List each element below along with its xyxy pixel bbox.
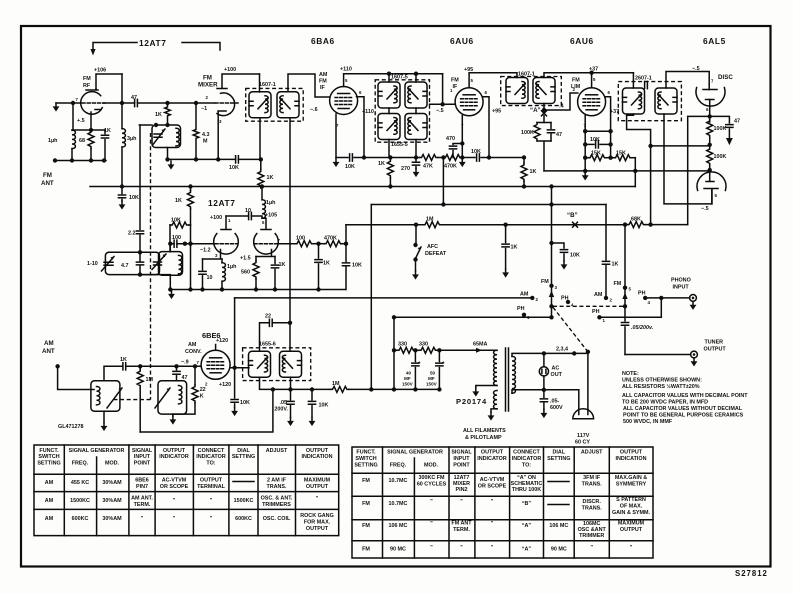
svg-text:THRU 100K: THRU 100K xyxy=(512,487,541,493)
capacitor 47 xyxy=(710,116,730,123)
svg-text:−1.2: −1.2 xyxy=(200,248,211,254)
wire plate xyxy=(230,367,249,369)
svg-text:FM: FM xyxy=(362,478,370,484)
capacitor 10K afc xyxy=(552,243,565,248)
svg-text:1K: 1K xyxy=(323,261,330,267)
wire filter bottom rail xyxy=(371,388,439,390)
svg-text:1M: 1M xyxy=(426,217,434,223)
svg-text:TRANS.: TRANS. xyxy=(582,506,603,512)
svg-text:SIGNAL GENERATOR: SIGNAL GENERATOR xyxy=(69,448,125,454)
capacitor 1K xyxy=(104,130,106,134)
svg-text:NOTE:: NOTE: xyxy=(622,371,639,377)
tube V5b 6AL5 lower diode xyxy=(697,172,726,191)
switch contact AM 2 xyxy=(530,296,534,300)
svg-text:FREQ.: FREQ. xyxy=(390,463,407,469)
svg-text:10.7MC: 10.7MC xyxy=(389,478,408,484)
svg-text:MF: MF xyxy=(428,376,435,381)
svg-text:1K: 1K xyxy=(104,128,111,134)
svg-text:SIGNAL: SIGNAL xyxy=(451,450,472,456)
wire tank top to grid row xyxy=(169,244,171,252)
wire to phono jack xyxy=(645,297,689,299)
wire B bus y224.7 xyxy=(346,224,625,226)
capacitor 470 xyxy=(453,144,462,145)
svg-text:AM: AM xyxy=(594,292,603,298)
svg-text:INDICATION: INDICATION xyxy=(301,454,332,460)
svg-text:OSC &ANT: OSC &ANT xyxy=(578,527,607,533)
wire grid to ground xyxy=(56,102,81,104)
wire secondary top to 6BA6 grid xyxy=(288,74,330,97)
resistor 22K xyxy=(194,366,196,384)
svg-text:ADJUST: ADJUST xyxy=(266,448,288,454)
svg-text:15K: 15K xyxy=(591,151,601,157)
svg-text:47K: 47K xyxy=(423,164,433,170)
resistor 1K xyxy=(165,103,171,125)
ground arrow xyxy=(726,138,733,145)
svg-text:OF MAX.: OF MAX. xyxy=(620,504,643,510)
wire grid input xyxy=(430,103,456,105)
wire ground bus xyxy=(170,289,345,291)
svg-text:12AT7: 12AT7 xyxy=(139,38,167,48)
wire phono ground side xyxy=(599,298,661,317)
svg-text:6BA6: 6BA6 xyxy=(311,36,335,46)
svg-text:PIN7: PIN7 xyxy=(136,484,148,490)
svg-text:“A”: “A” xyxy=(522,547,532,553)
ground osc xyxy=(172,414,174,416)
svg-text:500 WVDC, IN MMF: 500 WVDC, IN MMF xyxy=(623,419,673,425)
svg-text:”: ” xyxy=(173,516,176,522)
svg-text:+120: +120 xyxy=(219,382,231,388)
wire coil top xyxy=(104,366,122,381)
svg-text:FM: FM xyxy=(362,547,370,553)
svg-text:TRANS.: TRANS. xyxy=(582,482,603,488)
IF tank bottom-right xyxy=(405,114,427,140)
IF tank secondary xyxy=(533,78,555,104)
IF tank secondary xyxy=(280,351,302,377)
svg-text:DISC: DISC xyxy=(718,74,733,81)
svg-text:+100: +100 xyxy=(224,67,236,73)
svg-text:1µh: 1µh xyxy=(227,264,236,270)
wire reference y145.9 xyxy=(651,145,710,147)
notes text xyxy=(622,371,748,425)
svg-text:TERM.: TERM. xyxy=(453,527,470,533)
resistor 330 second xyxy=(415,349,419,351)
wire secondary bottom to node A xyxy=(543,104,545,111)
svg-text:10K: 10K xyxy=(129,195,139,201)
wire plate rail +110 xyxy=(344,74,443,87)
svg-text:47: 47 xyxy=(131,95,137,101)
wire cathode xyxy=(335,114,337,158)
svg-text:+: + xyxy=(442,360,445,365)
svg-text:FM: FM xyxy=(83,76,91,82)
wire corner to 10K chain xyxy=(345,225,347,262)
svg-text:100K: 100K xyxy=(714,154,727,160)
svg-text:47: 47 xyxy=(734,119,740,125)
capacitor 47 xyxy=(550,123,552,129)
svg-text:1500KC: 1500KC xyxy=(234,498,254,504)
wire primary bottom reference xyxy=(627,114,651,225)
svg-text:30%AM: 30%AM xyxy=(102,480,122,486)
ground xyxy=(413,169,420,178)
svg-text:CONV.: CONV. xyxy=(185,349,202,355)
svg-text:+1.5: +1.5 xyxy=(240,256,251,262)
svg-text:−.4: −.4 xyxy=(556,104,564,110)
wire antenna bus xyxy=(55,149,106,161)
svg-text:1-10: 1-10 xyxy=(87,261,98,267)
IF tank primary xyxy=(506,78,528,104)
svg-text:FM: FM xyxy=(614,281,622,287)
svg-text:”: ” xyxy=(590,545,593,551)
resistor 470K xyxy=(324,241,342,247)
wire AVC bus y186.5 xyxy=(90,186,635,188)
svg-text:3FM IF: 3FM IF xyxy=(583,475,601,481)
wire diode cathode down xyxy=(709,100,711,117)
IF tank secondary xyxy=(655,88,677,114)
svg-text:GAIN & SYMM.: GAIN & SYMM. xyxy=(612,510,651,516)
svg-text:FM: FM xyxy=(43,172,52,179)
wire trimmer feed x140 xyxy=(139,125,141,252)
wire bus y204.5 xyxy=(371,204,606,206)
resistor 1M xyxy=(423,222,441,228)
wire cathode xyxy=(461,116,463,158)
svg-text:100K: 100K xyxy=(521,130,534,136)
svg-text:ALL CAPACITOR VALUES WITH DECI: ALL CAPACITOR VALUES WITH DECIMAL POINT xyxy=(622,393,748,399)
svg-text:10K: 10K xyxy=(319,403,329,409)
coil 1uh plate choke xyxy=(261,187,263,200)
svg-text:DISCR.: DISCR. xyxy=(583,499,602,505)
wire primary top xyxy=(632,73,634,88)
svg-text:600KC: 600KC xyxy=(72,516,89,522)
wire secondary bottom xyxy=(512,390,579,393)
svg-text:MAXIMUM: MAXIMUM xyxy=(618,521,645,527)
svg-text:OUTPUT: OUTPUT xyxy=(200,478,223,484)
wire x606 1K cap to AM xyxy=(605,205,607,260)
svg-text:−.5: −.5 xyxy=(436,108,444,114)
svg-text:”: ” xyxy=(210,516,213,522)
svg-text:60 CYCLES: 60 CYCLES xyxy=(417,482,447,488)
svg-text:+: + xyxy=(418,360,421,365)
svg-text:1M: 1M xyxy=(146,377,154,383)
svg-text:PIN2: PIN2 xyxy=(456,487,468,493)
capacitor .05 200V xyxy=(290,389,292,399)
node xyxy=(120,101,124,105)
svg-text:POINT: POINT xyxy=(134,461,151,467)
svg-text:MIXER: MIXER xyxy=(453,481,470,487)
svg-text:FM: FM xyxy=(362,501,370,507)
svg-text:ALL CAPACITOR VALUES WITHOUT D: ALL CAPACITOR VALUES WITHOUT DECIMAL xyxy=(623,406,743,412)
svg-text:”: ” xyxy=(460,499,463,505)
capacitor 47 xyxy=(135,99,138,106)
IF tank secondary xyxy=(277,92,299,118)
svg-text:”: ” xyxy=(460,545,463,551)
svg-text:15K: 15K xyxy=(616,151,626,157)
svg-text:1K: 1K xyxy=(279,262,286,268)
svg-text:−.5: −.5 xyxy=(701,206,709,212)
svg-text:150V: 150V xyxy=(426,382,438,387)
ground xyxy=(168,161,175,170)
trimmer 1-10 xyxy=(105,252,159,274)
wire secondary bottom xyxy=(664,114,712,204)
resistor 1M xyxy=(139,366,141,369)
svg-text:10K: 10K xyxy=(352,263,362,269)
svg-text:“B”: “B” xyxy=(522,501,532,507)
switch contact PH 4 right xyxy=(643,296,647,300)
svg-text:106MC: 106MC xyxy=(583,521,600,527)
tube V2 6BA6 xyxy=(330,87,358,115)
wire grid line y103 xyxy=(103,102,215,104)
svg-text:”: ” xyxy=(491,499,494,505)
svg-text:TERMINAL: TERMINAL xyxy=(197,484,226,490)
svg-text:65MA: 65MA xyxy=(473,342,487,348)
coil AM antenna GL471278 xyxy=(91,381,120,411)
wire to 68K xyxy=(688,116,710,224)
wire primary top xyxy=(259,74,261,92)
svg-text:FM: FM xyxy=(203,75,212,82)
svg-text:”: ” xyxy=(141,516,144,522)
resistor 1K limiter xyxy=(523,158,525,163)
wire primary bottom xyxy=(259,118,261,160)
svg-text:MOD.: MOD. xyxy=(424,463,439,469)
svg-text:S PATTERN: S PATTERN xyxy=(616,497,646,503)
switch contact PH 1 right xyxy=(597,315,601,319)
wire x551 switch feed xyxy=(551,187,553,318)
node AM ANT terminal xyxy=(55,364,59,368)
wire AF takeoff bus y170.9 xyxy=(544,170,710,172)
capacitor 47 xyxy=(176,366,178,370)
tube V5a 6AL5 upper diode xyxy=(696,88,725,107)
transformer P20174 primary xyxy=(494,350,497,385)
ground xyxy=(53,103,60,112)
resistor 100 output xyxy=(277,243,295,245)
svg-text:600KC: 600KC xyxy=(235,516,252,522)
capacitor 10 xyxy=(202,259,204,270)
svg-text:−.6: −.6 xyxy=(310,107,318,113)
transformer secondary xyxy=(512,356,515,393)
svg-text:4.7: 4.7 xyxy=(121,263,129,269)
connector tuner output xyxy=(691,351,698,358)
capacitor 10K screen xyxy=(477,154,480,161)
svg-text:470K: 470K xyxy=(444,164,457,170)
svg-text:OSC. COIL: OSC. COIL xyxy=(263,516,291,522)
switch contact PH 1 xyxy=(522,313,526,317)
svg-text:1µh: 1µh xyxy=(48,138,57,144)
resistor 1M xyxy=(331,386,349,392)
resistor 68K xyxy=(625,224,627,226)
wire tank feeds xyxy=(389,74,416,158)
wire secondary bottom long vertical xyxy=(289,118,291,351)
svg-text:ROCK GANG: ROCK GANG xyxy=(300,513,334,519)
wire screen pin6 xyxy=(357,97,365,158)
svg-text:117V: 117V xyxy=(577,433,590,439)
svg-text:INPUT: INPUT xyxy=(134,454,151,460)
svg-text:MF: MF xyxy=(404,376,411,381)
svg-text:SWITCH: SWITCH xyxy=(355,456,376,462)
svg-text:ANT: ANT xyxy=(42,348,55,355)
capacitor 100 xyxy=(170,243,174,245)
svg-text:1K: 1K xyxy=(155,112,162,118)
svg-text:AM: AM xyxy=(45,498,54,504)
ground xyxy=(502,269,509,278)
svg-text:SWITCH: SWITCH xyxy=(38,454,59,460)
IF tank primary xyxy=(249,351,271,377)
svg-text:200V.: 200V. xyxy=(274,407,288,413)
svg-text:AC-VTVM: AC-VTVM xyxy=(162,478,187,484)
svg-text:“A”: “A” xyxy=(522,523,532,529)
svg-text:300KC FM: 300KC FM xyxy=(418,475,445,481)
svg-text:INPUT: INPUT xyxy=(453,456,470,462)
svg-text:FREQ.: FREQ. xyxy=(72,461,89,467)
svg-text:SYMMETRY: SYMMETRY xyxy=(616,482,647,488)
IF tank top-right xyxy=(405,82,427,108)
tube V4 6AU6 FM LIM xyxy=(578,88,606,116)
wire grid leak y131 xyxy=(585,130,610,132)
node A xyxy=(542,111,547,116)
svg-text:10K: 10K xyxy=(171,218,181,224)
wire secondary top to disc pin7 xyxy=(666,72,709,89)
wire node A down xyxy=(543,116,545,123)
svg-text:AM: AM xyxy=(44,340,54,347)
svg-text:1500KC: 1500KC xyxy=(70,498,90,504)
svg-text:10K: 10K xyxy=(229,165,239,171)
svg-text:FM: FM xyxy=(541,279,549,285)
svg-text:OUT: OUT xyxy=(551,372,563,378)
svg-text:68K: 68K xyxy=(631,217,641,223)
svg-text:6AU6: 6AU6 xyxy=(450,36,474,46)
svg-text:P20174: P20174 xyxy=(456,397,487,406)
svg-text:FM: FM xyxy=(362,523,370,529)
capacitor 10K xyxy=(236,156,239,163)
svg-text:+100: +100 xyxy=(210,215,222,221)
svg-text:”: ” xyxy=(210,498,213,504)
switch contact PH 4 xyxy=(566,300,570,304)
svg-text:MOD.: MOD. xyxy=(105,461,120,467)
svg-text:270: 270 xyxy=(401,166,410,172)
svg-text:3µh: 3µh xyxy=(127,136,136,142)
wire tuner output xyxy=(625,354,691,356)
wire x371 vertical xyxy=(370,205,372,390)
tube V3 6AU6 FM IF xyxy=(455,88,483,116)
ground xyxy=(119,201,126,210)
svg-text:.05/200v.: .05/200v. xyxy=(631,325,654,331)
svg-text:−1: −1 xyxy=(201,106,207,112)
svg-text:+.5: +.5 xyxy=(77,118,85,124)
svg-text:6AL5: 6AL5 xyxy=(703,36,726,46)
svg-text:AM ANT.: AM ANT. xyxy=(131,496,153,502)
svg-text:”: ” xyxy=(173,498,176,504)
coil 3uh xyxy=(122,129,125,147)
svg-text:RF: RF xyxy=(83,83,91,89)
wire grid return x190 xyxy=(190,225,192,290)
wire screen pin6 xyxy=(483,97,490,158)
ground xyxy=(231,408,238,417)
svg-text:DIAL: DIAL xyxy=(553,450,566,456)
svg-text:AC-VTVM: AC-VTVM xyxy=(480,477,505,483)
svg-text:+37: +37 xyxy=(589,67,598,73)
svg-text:SETTING: SETTING xyxy=(547,456,570,462)
svg-text:60 CY: 60 CY xyxy=(575,440,590,446)
capacitor 10K xyxy=(234,368,236,398)
capacitor 1K xyxy=(505,225,507,243)
wire cathode V6b xyxy=(256,250,275,257)
resistor 560 xyxy=(255,257,257,261)
svg-text:12AT7: 12AT7 xyxy=(454,475,470,481)
svg-text:OUTPUT: OUTPUT xyxy=(620,450,643,456)
svg-text:OUTPUT: OUTPUT xyxy=(704,347,727,353)
connector AC OUT xyxy=(543,353,545,366)
svg-text:INDICATOR: INDICATOR xyxy=(477,456,507,462)
svg-text:”: ” xyxy=(491,521,494,527)
capacitor 1K xyxy=(123,363,126,370)
svg-text:“B”: “B” xyxy=(567,212,578,219)
svg-text:UNLESS OTHERWISE SHOWN:: UNLESS OTHERWISE SHOWN: xyxy=(622,378,702,384)
svg-text:”: ” xyxy=(491,545,494,551)
wire secondary top rail +37 xyxy=(544,73,633,78)
wire plate rail +95 xyxy=(469,73,517,88)
wire xyxy=(72,103,105,130)
svg-text:1655-6: 1655-6 xyxy=(259,342,276,348)
svg-text:10K: 10K xyxy=(471,149,481,155)
tube V6a 12AT7 triode xyxy=(214,234,239,254)
resistor 330 xyxy=(397,347,415,353)
wire gang dashed xyxy=(112,133,151,400)
svg-text:MAX.GAIN &: MAX.GAIN & xyxy=(615,475,647,481)
svg-text:ALL FILAMENTS: ALL FILAMENTS xyxy=(463,428,506,434)
wire RC bottom xyxy=(537,141,551,171)
resistor 1K detector load xyxy=(260,159,262,169)
svg-text:2 AM IF: 2 AM IF xyxy=(267,478,287,484)
resistor 4.3M xyxy=(193,103,199,159)
wire dashed rotor bus xyxy=(553,305,625,307)
svg-text:6AU6: 6AU6 xyxy=(570,36,594,46)
svg-text:600V: 600V xyxy=(550,405,563,411)
svg-text:TO BE 200 WVDC PAPER, IN MFD: TO BE 200 WVDC PAPER, IN MFD xyxy=(622,400,708,406)
FM alignment table xyxy=(352,447,653,558)
wire dashed diagonal to transformer xyxy=(553,307,588,352)
svg-text:S27812: S27812 xyxy=(735,569,768,578)
svg-text:+110: +110 xyxy=(340,67,352,73)
svg-text:90 MC: 90 MC xyxy=(551,547,567,553)
wire B+ vertical x122 xyxy=(121,74,123,187)
svg-text:PH: PH xyxy=(561,296,569,302)
svg-text:SCHEMATIC: SCHEMATIC xyxy=(511,481,543,487)
svg-text:MAXIMUM: MAXIMUM xyxy=(304,478,331,484)
ground xyxy=(582,172,589,181)
transformer filament winding xyxy=(494,391,497,409)
wire +110 drop xyxy=(442,74,444,105)
svg-text:TO:: TO: xyxy=(206,461,215,467)
svg-text:PH: PH xyxy=(592,309,600,315)
coil 1uh cathode xyxy=(221,259,223,263)
svg-text:TRANS.: TRANS. xyxy=(266,484,287,490)
wire cathode xyxy=(584,115,586,171)
svg-text:−.5: −.5 xyxy=(692,66,700,72)
svg-text:AM: AM xyxy=(188,342,197,348)
svg-text:SIGNAL GENERATOR: SIGNAL GENERATOR xyxy=(387,450,443,456)
svg-text:1K: 1K xyxy=(267,175,274,181)
svg-text:10K: 10K xyxy=(240,400,250,406)
connector line plug 117V xyxy=(573,409,594,419)
svg-text:+106: +106 xyxy=(94,68,106,74)
IF tank top-left xyxy=(378,82,400,108)
wire bus y317 xyxy=(394,316,552,318)
wire secondary bottom xyxy=(260,377,273,389)
IF tank primary xyxy=(623,88,645,114)
IF tank FM RF plate xyxy=(139,124,152,126)
svg-text:2,3,4: 2,3,4 xyxy=(556,347,568,353)
svg-text:1655-5: 1655-5 xyxy=(391,142,408,148)
svg-text:ANT: ANT xyxy=(41,180,54,187)
svg-text:OR SCOPE: OR SCOPE xyxy=(160,484,189,490)
svg-text:1K: 1K xyxy=(378,161,385,167)
